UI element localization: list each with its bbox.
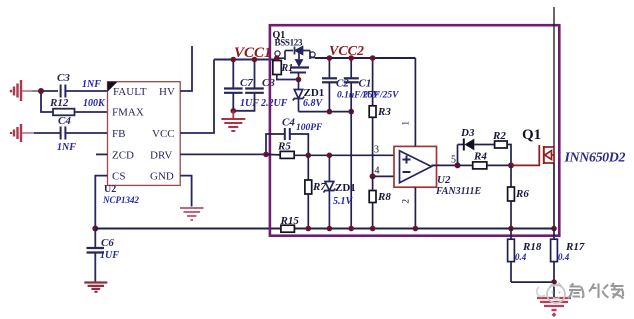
svg-text:R4: R4 <box>473 151 487 163</box>
capacitor C1 1UF/25V <box>337 58 399 112</box>
bottom rail <box>95 228 554 230</box>
junction R7-rail <box>306 226 312 232</box>
svg-text:Q1: Q1 <box>522 127 541 143</box>
node dot C2 bottom <box>327 109 333 115</box>
watermark text <box>568 283 624 299</box>
capacitor C4 100PF loop <box>266 117 323 156</box>
svg-text:U2: U2 <box>104 184 116 195</box>
resistor R8 <box>369 191 391 229</box>
node dot R3 top <box>370 55 376 61</box>
ground below C7 <box>221 111 245 131</box>
svg-text:1NF: 1NF <box>57 142 76 153</box>
junction R8-rail <box>370 226 376 232</box>
svg-text:FAULT: FAULT <box>113 86 147 98</box>
svg-text:D3: D3 <box>460 127 475 139</box>
wire drain up <box>553 7 555 147</box>
svg-text:DRV: DRV <box>150 150 172 162</box>
ground bottom right <box>537 298 571 310</box>
svg-text:R12: R12 <box>49 97 69 109</box>
wire C4 to FB <box>65 132 107 134</box>
resistor R2 <box>492 130 511 165</box>
watermark logo <box>537 284 565 304</box>
resistor R15 <box>280 215 300 232</box>
svg-text:100PF: 100PF <box>296 123 323 133</box>
junction pin2-rail <box>413 226 419 232</box>
svg-text:2: 2 <box>401 199 411 204</box>
node dot BSS123 left pin <box>274 55 280 61</box>
diode D3 <box>460 127 495 151</box>
wire ground to node A <box>22 90 32 92</box>
wire ground2 to C4 <box>22 132 34 134</box>
svg-text:ZCD: ZCD <box>112 150 134 162</box>
IC U2 NCP1342 <box>102 82 180 205</box>
wire GND down to ground <box>180 176 191 207</box>
wire node A down to R12 <box>41 91 53 112</box>
capacitor C3 2.2UF <box>233 60 287 111</box>
node dot C1 top <box>348 55 354 61</box>
node dot ZD1b top <box>327 153 333 159</box>
junction R6-R18-rail <box>508 226 514 232</box>
wire pin3 <box>294 154 399 156</box>
svg-text:C1: C1 <box>359 78 372 90</box>
transistor Q1 INN650D2 <box>544 146 554 164</box>
resistor R5 <box>266 141 294 159</box>
node dot bottom <box>551 279 557 285</box>
svg-text:R8: R8 <box>377 191 391 203</box>
node dot C1 bottom <box>348 109 354 115</box>
svg-text:ZD1: ZD1 <box>335 182 356 194</box>
wire pin5 output <box>431 164 457 166</box>
wire gate <box>511 145 539 165</box>
wire up to D3 <box>457 145 459 166</box>
node dot C2 top <box>327 55 333 61</box>
svg-text:1: 1 <box>401 121 411 126</box>
capacitor C6 1UF <box>87 229 120 282</box>
capacitor C2 0.1uF <box>322 58 349 112</box>
capacitor C7 1UF <box>224 60 259 111</box>
wire R12 to FMAX <box>75 111 108 113</box>
node A junction dot <box>38 88 44 94</box>
node dot C6 top <box>92 226 98 232</box>
zener ZD1 6.8V <box>293 80 304 112</box>
svg-text:0.4: 0.4 <box>558 252 570 262</box>
svg-text:C4: C4 <box>58 115 71 127</box>
ground left-top <box>11 80 21 101</box>
svg-text:NCP1342: NCP1342 <box>102 195 140 205</box>
ground below GND pin <box>180 208 204 220</box>
wire pin4 <box>373 175 401 177</box>
svg-text:C7: C7 <box>240 77 253 89</box>
svg-text:VCC2: VCC2 <box>329 44 364 59</box>
node dot gate/R1/ZD1 <box>296 77 302 83</box>
resistor R1 <box>273 58 299 79</box>
node dot C7 top <box>231 57 237 63</box>
svg-text:C3: C3 <box>57 72 70 84</box>
svg-text:U2: U2 <box>437 174 451 186</box>
wire DRV to box <box>180 153 266 155</box>
node dot pin4 <box>370 173 376 179</box>
svg-text:4: 4 <box>375 166 380 177</box>
resistor R12 100K <box>49 97 106 115</box>
transistor Q1 BSS123 symbol <box>275 47 315 80</box>
svg-text:3: 3 <box>374 145 379 156</box>
svg-text:2.2UF: 2.2UF <box>260 98 288 109</box>
VCC2 rail <box>315 57 415 59</box>
svg-text:1NF: 1NF <box>82 79 101 90</box>
purple enclosure box <box>270 25 559 236</box>
node dot C7 bottom <box>231 108 237 114</box>
svg-text:FAN3111E: FAN3111E <box>435 186 482 197</box>
svg-text:FB: FB <box>112 128 125 140</box>
wire HV up <box>180 46 192 91</box>
junction Q1 source-R17-rail <box>551 226 557 232</box>
wire R3-R8 vertical <box>372 176 374 190</box>
wire R18 bottom to R17 bottom <box>511 281 554 283</box>
mid rail ZD1-C2-C1 <box>299 111 352 113</box>
svg-text:R2: R2 <box>492 130 506 142</box>
svg-text:R1: R1 <box>281 63 294 74</box>
svg-text:1UF: 1UF <box>240 98 259 109</box>
wire C1 down to bottom rail <box>350 112 352 229</box>
svg-text:1UF: 1UF <box>100 250 119 261</box>
svg-text:R3: R3 <box>377 106 391 118</box>
wire source down <box>553 163 555 229</box>
capacitor C4 1NF <box>57 115 76 153</box>
resistor R17 <box>551 229 585 283</box>
svg-text:6.8V: 6.8V <box>303 98 324 109</box>
resistor R3 <box>369 58 391 176</box>
svg-text:R6: R6 <box>515 188 529 200</box>
wire pin1 VDD <box>414 58 416 146</box>
wire down to ground <box>553 282 555 298</box>
resistor R4 <box>458 151 512 169</box>
svg-text:1UF/25V: 1UF/25V <box>362 91 399 101</box>
svg-text:CS: CS <box>112 171 125 183</box>
svg-text:100K: 100K <box>83 98 106 109</box>
resistor R7 <box>305 155 326 228</box>
svg-text:R5: R5 <box>277 141 291 153</box>
wire VCC up to VCC1 rail <box>180 60 214 134</box>
ground below C6 <box>84 283 107 292</box>
junction C1-rail <box>348 226 354 232</box>
svg-text:BSS123: BSS123 <box>275 38 304 48</box>
node dot C4 left <box>263 152 269 158</box>
svg-text:INN650D2: INN650D2 <box>564 151 626 166</box>
svg-text:HV: HV <box>159 86 175 98</box>
svg-text:C4: C4 <box>282 117 295 129</box>
junction ZD1-rail <box>327 226 333 232</box>
node dot R2/R4 <box>508 162 514 168</box>
node dot pin5 <box>455 162 461 168</box>
svg-text:FMAX: FMAX <box>112 107 144 119</box>
wire ZCD stub <box>96 153 108 155</box>
svg-text:R15: R15 <box>280 215 300 227</box>
wire pin2 VSS <box>414 187 416 228</box>
svg-text:0.4: 0.4 <box>515 252 527 262</box>
ground left-2 <box>11 124 21 142</box>
svg-text:GND: GND <box>150 171 174 183</box>
svg-text:VCC: VCC <box>152 128 175 140</box>
svg-text:5.1V: 5.1V <box>333 196 354 207</box>
VCC1 rail <box>214 59 276 61</box>
node dot R7 top <box>306 153 312 159</box>
node dot C3 top <box>252 57 258 63</box>
capacitor C3 1NF <box>57 72 101 98</box>
resistor R6 <box>508 165 530 228</box>
wire CS left and down <box>95 176 107 229</box>
wire C3 to FAULT <box>65 90 107 92</box>
zener ZD1 5.1V <box>324 155 336 228</box>
resistor R18 <box>508 229 542 283</box>
svg-text:C6: C6 <box>101 237 114 249</box>
op-amp U2 FAN3111E <box>394 146 482 197</box>
